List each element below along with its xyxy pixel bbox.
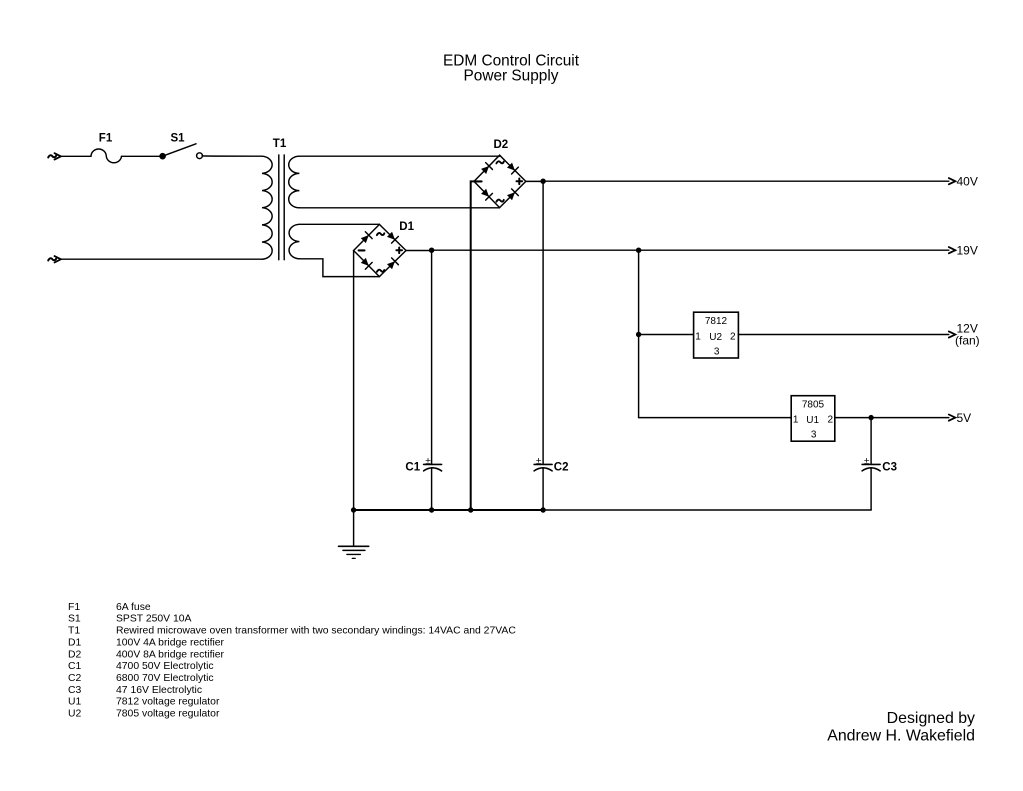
T1 secondary winding top: [289, 156, 300, 208]
node: 19V tap junction: [636, 248, 641, 253]
40V arrow: [949, 178, 956, 184]
svg-text:3: 3: [811, 429, 817, 440]
svg-text:2: 2: [828, 415, 834, 426]
svg-text:100V 4A bridge rectifier: 100V 4A bridge rectifier: [116, 637, 225, 648]
12V arrow: [949, 331, 956, 337]
title: [443, 52, 580, 84]
switch S1: [159, 133, 202, 160]
wire: 19V tap down to regulators: [638, 250, 640, 417]
svg-text:C1: C1: [405, 461, 420, 473]
T1 primary winding: [262, 156, 272, 259]
svg-text:C2: C2: [554, 461, 569, 473]
ground: [339, 510, 369, 558]
5V arrow: [949, 415, 956, 421]
svg-text:5V: 5V: [957, 411, 972, 425]
wire: ground bus right: [543, 509, 871, 511]
node: C2 bus junction: [540, 507, 545, 512]
svg-text:4700 50V Electrolytic: 4700 50V Electrolytic: [116, 661, 214, 672]
svg-text:47 16V Electrolytic: 47 16V Electrolytic: [116, 685, 202, 696]
svg-text:C1: C1: [68, 661, 82, 672]
fuse F1: [91, 149, 122, 163]
svg-text:±: ±: [536, 456, 542, 467]
svg-text:D2: D2: [494, 139, 509, 151]
AC input bottom (~ arrow): [48, 256, 61, 262]
svg-text:40V: 40V: [957, 174, 978, 188]
credit: [827, 710, 975, 744]
T1 secondary winding bottom: [289, 224, 299, 258]
wire: secondary to D2 bottom: [299, 207, 499, 209]
D2 diode bottom-left: [480, 188, 492, 200]
voltage regulator U2: [694, 312, 739, 358]
D1 diode bottom-right: [386, 258, 398, 270]
wire: secondary to D1 top: [299, 223, 379, 225]
wire: input to fuse: [61, 155, 91, 157]
svg-text:Designed by: Designed by: [887, 710, 975, 727]
wire: D2- vertical drop: [471, 181, 474, 510]
wire: secondary top to D2 top: [299, 154, 499, 157]
svg-text:U1: U1: [806, 415, 819, 426]
wire: junction to U2 pin1: [639, 334, 694, 336]
svg-text:19V: 19V: [957, 244, 978, 258]
D2 diode top-left: [480, 163, 492, 175]
wire: fuse to switch: [122, 155, 161, 157]
svg-text:D1: D1: [68, 637, 82, 648]
wire: ground bus left: [354, 509, 543, 511]
svg-text:C2: C2: [68, 673, 82, 684]
D1 diode top-left: [360, 232, 372, 244]
svg-text:7812: 7812: [705, 316, 728, 327]
capacitor C1: [405, 250, 441, 510]
wire: bottom input to primary: [61, 258, 262, 260]
svg-text:1: 1: [695, 332, 701, 343]
D2 diode top-right: [506, 162, 518, 174]
wire: D1+ to junction: [406, 250, 432, 252]
19V arrow: [949, 247, 956, 253]
svg-text:T1: T1: [273, 138, 287, 150]
svg-text:D1: D1: [399, 221, 414, 233]
svg-text:Andrew H. Wakefield: Andrew H. Wakefield: [827, 727, 975, 744]
bridge rectifier D1: [354, 221, 415, 276]
D1 diode top-right: [386, 231, 398, 243]
svg-text:6A fuse: 6A fuse: [116, 602, 151, 613]
wire: U2 pin2 to 12V rail: [738, 334, 948, 336]
wire: down to U1 input: [639, 417, 792, 419]
svg-text:F1: F1: [99, 133, 113, 145]
svg-text:F1: F1: [68, 602, 80, 613]
svg-text:400V 8A bridge rectifier: 400V 8A bridge rectifier: [116, 649, 225, 660]
svg-text:3: 3: [714, 346, 720, 357]
svg-text:(fan): (fan): [955, 334, 980, 348]
wire: 40V rail: [543, 180, 949, 182]
wire: U1 pin2 to 5V rail: [835, 417, 949, 419]
svg-text:7805 voltage regulator: 7805 voltage regulator: [116, 709, 220, 720]
svg-text:6800 70V Electrolytic: 6800 70V Electrolytic: [116, 673, 214, 684]
svg-text:C3: C3: [68, 685, 82, 696]
svg-text:Rewired microwave oven transfo: Rewired microwave oven transformer with …: [116, 626, 516, 637]
svg-text:7812 voltage regulator: 7812 voltage regulator: [116, 697, 220, 708]
svg-text:U2: U2: [709, 332, 722, 343]
T1 core: [279, 155, 284, 260]
bridge rectifier D2: [474, 139, 526, 208]
node: 5V / C3 junction: [868, 415, 873, 420]
svg-text:D2: D2: [68, 649, 82, 660]
node: C1 bus junction: [429, 507, 434, 512]
D2 diode bottom-right: [506, 189, 518, 201]
wire: switch to transformer primary: [202, 155, 262, 157]
node: D2 output junction: [540, 179, 545, 184]
svg-text:U2: U2: [68, 709, 82, 720]
parts list: [68, 602, 516, 720]
node: D2- bus junction: [468, 507, 473, 512]
wire: D2+ to 40V rail: [526, 180, 543, 182]
svg-text:Power Supply: Power Supply: [464, 68, 559, 85]
svg-text:S1: S1: [171, 133, 186, 145]
svg-text:U1: U1: [68, 697, 82, 708]
node: bus junction at ground: [351, 507, 356, 512]
svg-text:2: 2: [730, 332, 736, 343]
node: D1 output junction: [429, 248, 434, 253]
D1 diode bottom-left: [360, 257, 372, 269]
wire: secondary to D1 bottom (step): [299, 259, 379, 277]
AC input top (~ arrow): [48, 153, 61, 159]
node: U2 input junction: [636, 332, 641, 337]
capacitor C2: [534, 181, 568, 510]
svg-text:1: 1: [793, 415, 799, 426]
svg-text:T1: T1: [68, 626, 80, 637]
svg-text:±: ±: [425, 456, 431, 467]
wire: D1- vertical drop: [353, 251, 355, 511]
svg-text:7805: 7805: [802, 400, 825, 411]
svg-text:SPST 250V 10A: SPST 250V 10A: [116, 614, 192, 625]
wire: 19V rail: [432, 249, 949, 251]
capacitor C3: [862, 418, 897, 510]
svg-text:±: ±: [864, 456, 870, 467]
svg-text:C3: C3: [882, 462, 897, 474]
svg-text:S1: S1: [68, 614, 81, 625]
voltage regulator U1: [791, 396, 835, 442]
